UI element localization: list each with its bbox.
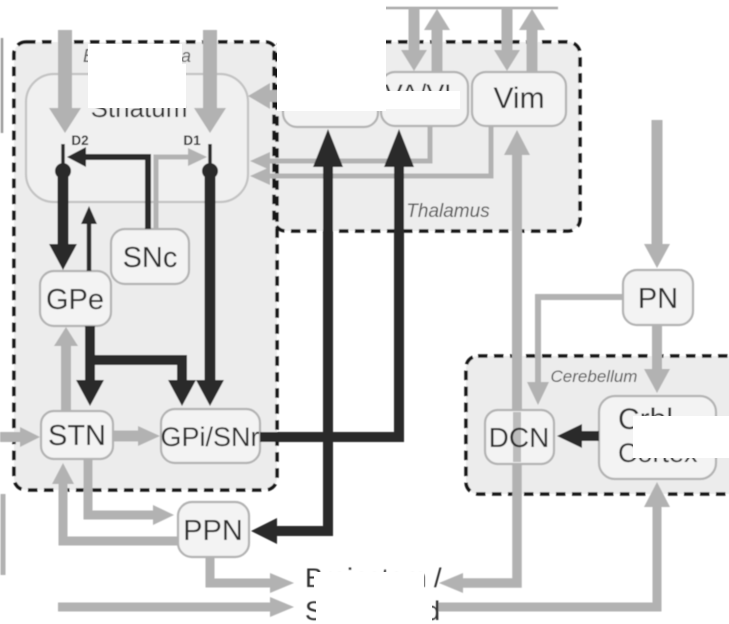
- box thalamus hidden: [283, 72, 378, 127]
- svg-text:STN: STN: [48, 420, 106, 452]
- wire DCN to brainstem: [462, 464, 517, 583]
- white cover over VA/VL label: [384, 91, 460, 109]
- svg-text:Vim: Vim: [493, 82, 544, 115]
- basal ganglia dashed border: [14, 42, 277, 490]
- wire STN to PPN: [88, 459, 155, 515]
- redraw DCN-Vim wire over DCN box: [513, 412, 521, 462]
- wire PPN to STN: [63, 482, 178, 541]
- wire GPe to striatum (thin up): [87, 222, 92, 271]
- wire cortex to Vim down: [502, 8, 513, 52]
- cerebellum region fill: [466, 356, 729, 494]
- box GPi/SNr: [161, 409, 260, 463]
- wire DCN to Vim: [512, 153, 522, 410]
- wire GPi/SNr to VA/VL: [260, 165, 399, 437]
- box DCN: [485, 410, 554, 464]
- left crop line bottom: [1, 494, 6, 575]
- wire GPe to STN: [85, 326, 95, 382]
- node boxes: [40, 72, 716, 557]
- white cover over hidden thalamus box: [277, 0, 386, 111]
- box Vim: [472, 72, 566, 126]
- node D1 synapse: [208, 144, 212, 165]
- wire left input to STN: [0, 432, 22, 442]
- svg-text:D2: D2: [71, 133, 88, 148]
- wire VA/VL to cortex up: [432, 28, 443, 72]
- wire cortex to PN: [652, 120, 663, 246]
- wire cortex to striatum D1: [203, 30, 217, 110]
- wire VA/VL to striatum: [268, 126, 430, 161]
- white cover over striatum label: [88, 64, 186, 108]
- box STN: [41, 411, 113, 459]
- wire cortex to striatum D2: [58, 30, 72, 110]
- wire PN to DCN: [538, 297, 623, 384]
- wire D1 to GPi/SNr: [205, 171, 216, 382]
- svg-text:PPN: PPN: [183, 515, 243, 547]
- wire Vim to striatum: [268, 126, 491, 176]
- box PN: [623, 270, 693, 325]
- left crop line top: [1, 38, 4, 133]
- wire spinal cord to cerebellar cortex: [437, 505, 657, 607]
- wire STN to GPe: [61, 344, 71, 411]
- box PPN: [178, 502, 249, 557]
- svg-text:Thalamus: Thalamus: [406, 201, 490, 222]
- white cover over basal ganglia label: [88, 44, 182, 68]
- white cover over cerebellar cortex label: [633, 416, 729, 458]
- cerebellum dashed border: [466, 356, 729, 494]
- wire SNc to D1: [156, 157, 190, 229]
- striatum box: [26, 74, 248, 202]
- wire SNc to D2: [84, 157, 148, 229]
- box GPe: [40, 271, 111, 326]
- wire cortex-thalamus VA/VL down: [409, 8, 420, 52]
- svg-text:SNc: SNc: [123, 242, 178, 274]
- svg-text:D1: D1: [183, 133, 201, 148]
- node D2 synapse: [61, 144, 65, 165]
- svg-text:PN: PN: [638, 283, 678, 315]
- wire STN to GPi/SNr: [113, 431, 140, 442]
- svg-text:DCN: DCN: [489, 422, 550, 453]
- wire into striatum from right: [268, 90, 390, 102]
- wire Vim to cortex up: [527, 28, 538, 72]
- box cerebellar cortex: [599, 396, 716, 479]
- thalamus region fill: [274, 42, 580, 231]
- wire GPe branch to GPi/SNr: [90, 360, 182, 382]
- basal ganglia region fill: [14, 42, 277, 490]
- wire cerebellar cortex to DCN: [580, 431, 599, 441]
- wire D2 to GPe: [58, 171, 69, 246]
- box VA/VL: [381, 72, 468, 126]
- svg-text:Cerebellum: Cerebellum: [551, 367, 638, 386]
- cortex box bottom edge (cropped): [380, 7, 558, 10]
- white cover over brainstem label: [314, 572, 424, 596]
- svg-text:GPi/SNr: GPi/SNr: [160, 422, 259, 452]
- box SNc: [111, 229, 189, 284]
- wire GPi/SNr to hidden thalamus box and PPN: [275, 165, 328, 531]
- thalamus dashed border: [274, 42, 580, 231]
- black wires: [49, 129, 599, 544]
- wire long input to brainstem: [58, 603, 272, 612]
- svg-text:GPe: GPe: [46, 284, 104, 316]
- wire PPN to brainstem: [210, 557, 272, 583]
- wire PN to cerebellar cortex: [652, 325, 662, 371]
